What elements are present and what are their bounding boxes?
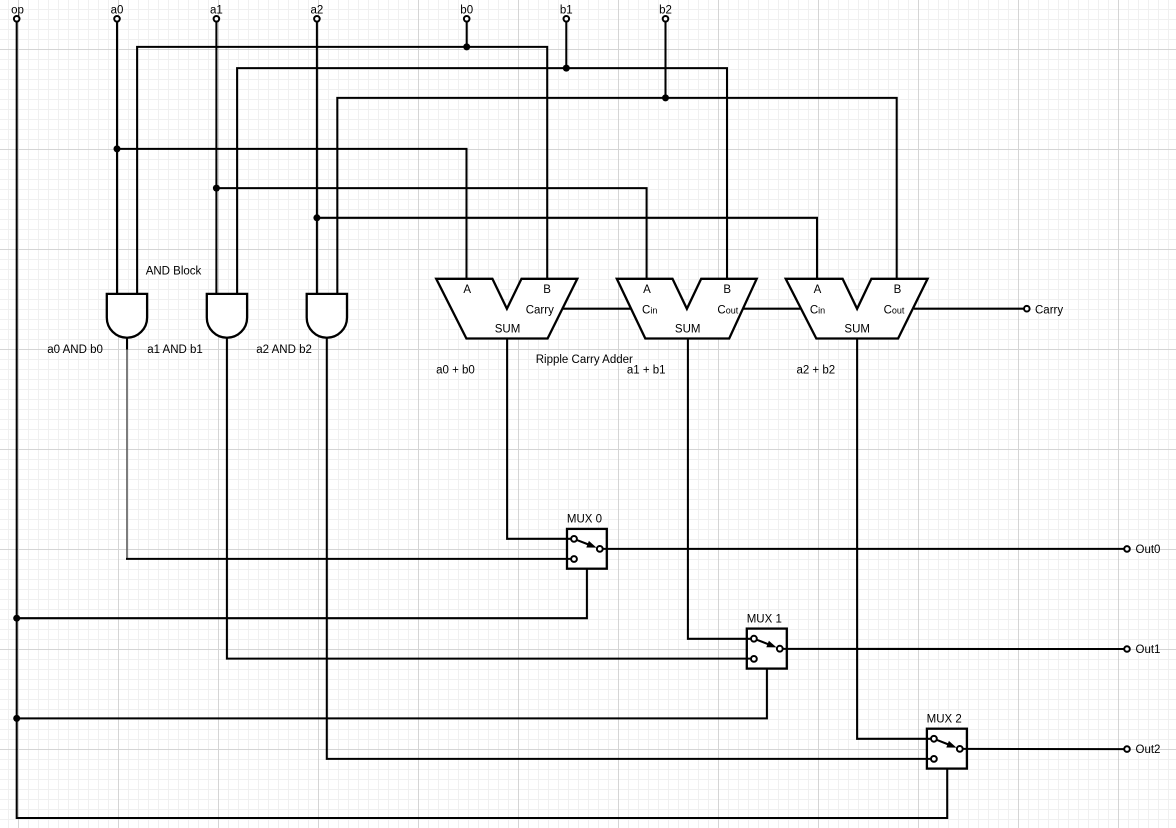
wire AND gate 3 output to MUX 2 input 2 bbox=[327, 338, 934, 759]
svg-text:SUM: SUM bbox=[675, 324, 701, 336]
MUX 1 pin circles bbox=[751, 636, 757, 642]
wire b0 to AND gate 1 right input and adder 1 input B bbox=[137, 47, 547, 294]
MUX 0 pin circles bbox=[571, 536, 577, 542]
wire MUX 1 output to Out1 bbox=[780, 648, 1124, 650]
terminal Out1 bbox=[1124, 646, 1130, 652]
svg-text:Carry: Carry bbox=[1035, 304, 1063, 316]
node junction op/mux1 bbox=[13, 715, 20, 722]
wire adder 3 SUM to MUX 2 input 1 bbox=[857, 339, 934, 739]
AND gate A2 (a1 AND b1) bbox=[207, 294, 247, 338]
wire op vertical + bottom run to MUX 2 select bbox=[17, 22, 948, 818]
terminal Carry bbox=[1024, 306, 1030, 312]
wire adder 3 Cout to Carry terminal bbox=[914, 308, 1024, 310]
svg-text:B: B bbox=[723, 284, 731, 296]
wire b1 to AND gate 2 right input and adder 2 input B bbox=[237, 68, 727, 294]
wire adder 1 SUM to MUX 0 input 1 bbox=[507, 339, 574, 539]
svg-text:Out1: Out1 bbox=[1136, 644, 1161, 656]
svg-text:MUX 0: MUX 0 bbox=[567, 514, 602, 526]
node junction b1 bbox=[563, 65, 570, 72]
wire a0 vertical into AND gate 1 bbox=[116, 22, 118, 294]
wire AND gate 1 output to MUX 0 input 2 bbox=[126, 558, 574, 560]
terminal b1 bbox=[564, 16, 570, 22]
wire AND gate 2 output to MUX 1 input 2 bbox=[227, 338, 754, 659]
svg-text:op: op bbox=[11, 5, 24, 17]
svg-text:b2: b2 bbox=[659, 5, 672, 17]
wire b2 to AND gate 3 right input and adder 3 input B bbox=[337, 98, 896, 294]
svg-text:Carry: Carry bbox=[526, 304, 554, 316]
wire b2 vertical bbox=[664, 22, 666, 98]
svg-text:Cout: Cout bbox=[884, 304, 905, 316]
wire op branch to MUX 0 select bbox=[17, 569, 587, 619]
svg-text:B: B bbox=[894, 284, 902, 296]
svg-text:a1: a1 bbox=[210, 5, 223, 17]
svg-text:a1 + b1: a1 + b1 bbox=[627, 365, 666, 377]
svg-text:Cin: Cin bbox=[642, 304, 657, 316]
svg-text:a0 + b0: a0 + b0 bbox=[436, 365, 475, 377]
svg-text:Ripple Carry Adder: Ripple Carry Adder bbox=[536, 354, 633, 366]
wire MUX 0 output to Out0 bbox=[600, 548, 1124, 550]
wire adder 2 Cout to adder 3 Cin bbox=[743, 308, 801, 310]
wire AND gate 1 output stub bbox=[126, 338, 128, 350]
svg-text:AND Block: AND Block bbox=[146, 266, 202, 278]
terminal b0 bbox=[464, 16, 470, 22]
svg-text:b0: b0 bbox=[460, 5, 473, 17]
AND gate A1 (a0 AND b0) bbox=[107, 294, 147, 338]
MUX 1 arrowhead bbox=[766, 641, 776, 648]
wire a0 branch to adder 1 input A bbox=[117, 149, 467, 279]
svg-text:A: A bbox=[643, 284, 651, 296]
terminal op bbox=[14, 16, 20, 22]
svg-text:A: A bbox=[814, 284, 822, 296]
AND gate A3 (a2 AND b2) bbox=[307, 294, 347, 338]
MUX 2 pin circles bbox=[931, 736, 937, 742]
full adder U1 body bbox=[436, 279, 577, 339]
wire a2 branch to adder 3 input A bbox=[317, 218, 817, 279]
svg-text:Cout: Cout bbox=[717, 304, 738, 316]
node junction a1 bbox=[213, 185, 220, 192]
wire adder 1 Cout to adder 2 Cin bbox=[562, 308, 632, 310]
svg-text:SUM: SUM bbox=[844, 324, 870, 336]
wire MUX 2 output to Out2 bbox=[960, 748, 1124, 750]
wire adder 2 SUM to MUX 1 input 1 bbox=[688, 339, 754, 639]
svg-text:a2 + b2: a2 + b2 bbox=[796, 365, 835, 377]
svg-text:a2 AND b2: a2 AND b2 bbox=[256, 344, 312, 356]
svg-text:b1: b1 bbox=[560, 5, 573, 17]
wire AND gate 1 output gray vertical bbox=[126, 350, 128, 559]
MUX 2 switch arm bbox=[937, 740, 948, 744]
svg-text:Out2: Out2 bbox=[1136, 744, 1161, 756]
terminal a0 bbox=[114, 16, 120, 22]
full adder U3 body bbox=[786, 279, 928, 339]
wire b0 vertical bbox=[466, 22, 468, 47]
full adder U2 body bbox=[617, 279, 757, 339]
node junction a0 bbox=[114, 145, 121, 152]
svg-text:a0 AND b0: a0 AND b0 bbox=[47, 344, 103, 356]
MUX 0 switch arm bbox=[577, 540, 588, 544]
wire a1 vertical into AND gate 2 bbox=[215, 22, 217, 294]
svg-text:Cin: Cin bbox=[810, 304, 825, 316]
svg-text:B: B bbox=[543, 284, 551, 296]
MUX 2 arrowhead bbox=[946, 741, 956, 748]
svg-text:SUM: SUM bbox=[495, 324, 521, 336]
svg-text:a2: a2 bbox=[311, 5, 324, 17]
wire op branch to MUX 1 select bbox=[17, 669, 767, 719]
node junction a2 bbox=[313, 214, 320, 221]
node junction op/mux0 bbox=[13, 615, 20, 622]
svg-text:a1 AND b1: a1 AND b1 bbox=[147, 344, 203, 356]
svg-text:Out0: Out0 bbox=[1136, 544, 1161, 556]
node junction b2 bbox=[662, 94, 669, 101]
terminal b2 bbox=[663, 16, 669, 22]
svg-text:a0: a0 bbox=[111, 5, 124, 17]
wire a2 vertical into AND gate 3 bbox=[316, 22, 318, 294]
MUX 2 box bbox=[927, 729, 967, 769]
svg-text:A: A bbox=[463, 284, 471, 296]
node junction b0 bbox=[463, 43, 470, 50]
terminal Out2 bbox=[1124, 746, 1130, 752]
svg-text:MUX 1: MUX 1 bbox=[747, 614, 782, 626]
svg-text:MUX 2: MUX 2 bbox=[927, 714, 962, 726]
wire a1 branch to adder 2 input A bbox=[216, 188, 646, 279]
MUX 1 box bbox=[747, 629, 787, 669]
terminal a1 bbox=[214, 16, 220, 22]
terminal Out0 bbox=[1124, 546, 1130, 552]
terminal a2 bbox=[314, 16, 320, 22]
MUX 0 arrowhead bbox=[586, 541, 596, 548]
MUX 0 box bbox=[567, 529, 607, 569]
wire b1 vertical bbox=[565, 22, 567, 68]
MUX 1 switch arm bbox=[757, 640, 768, 644]
